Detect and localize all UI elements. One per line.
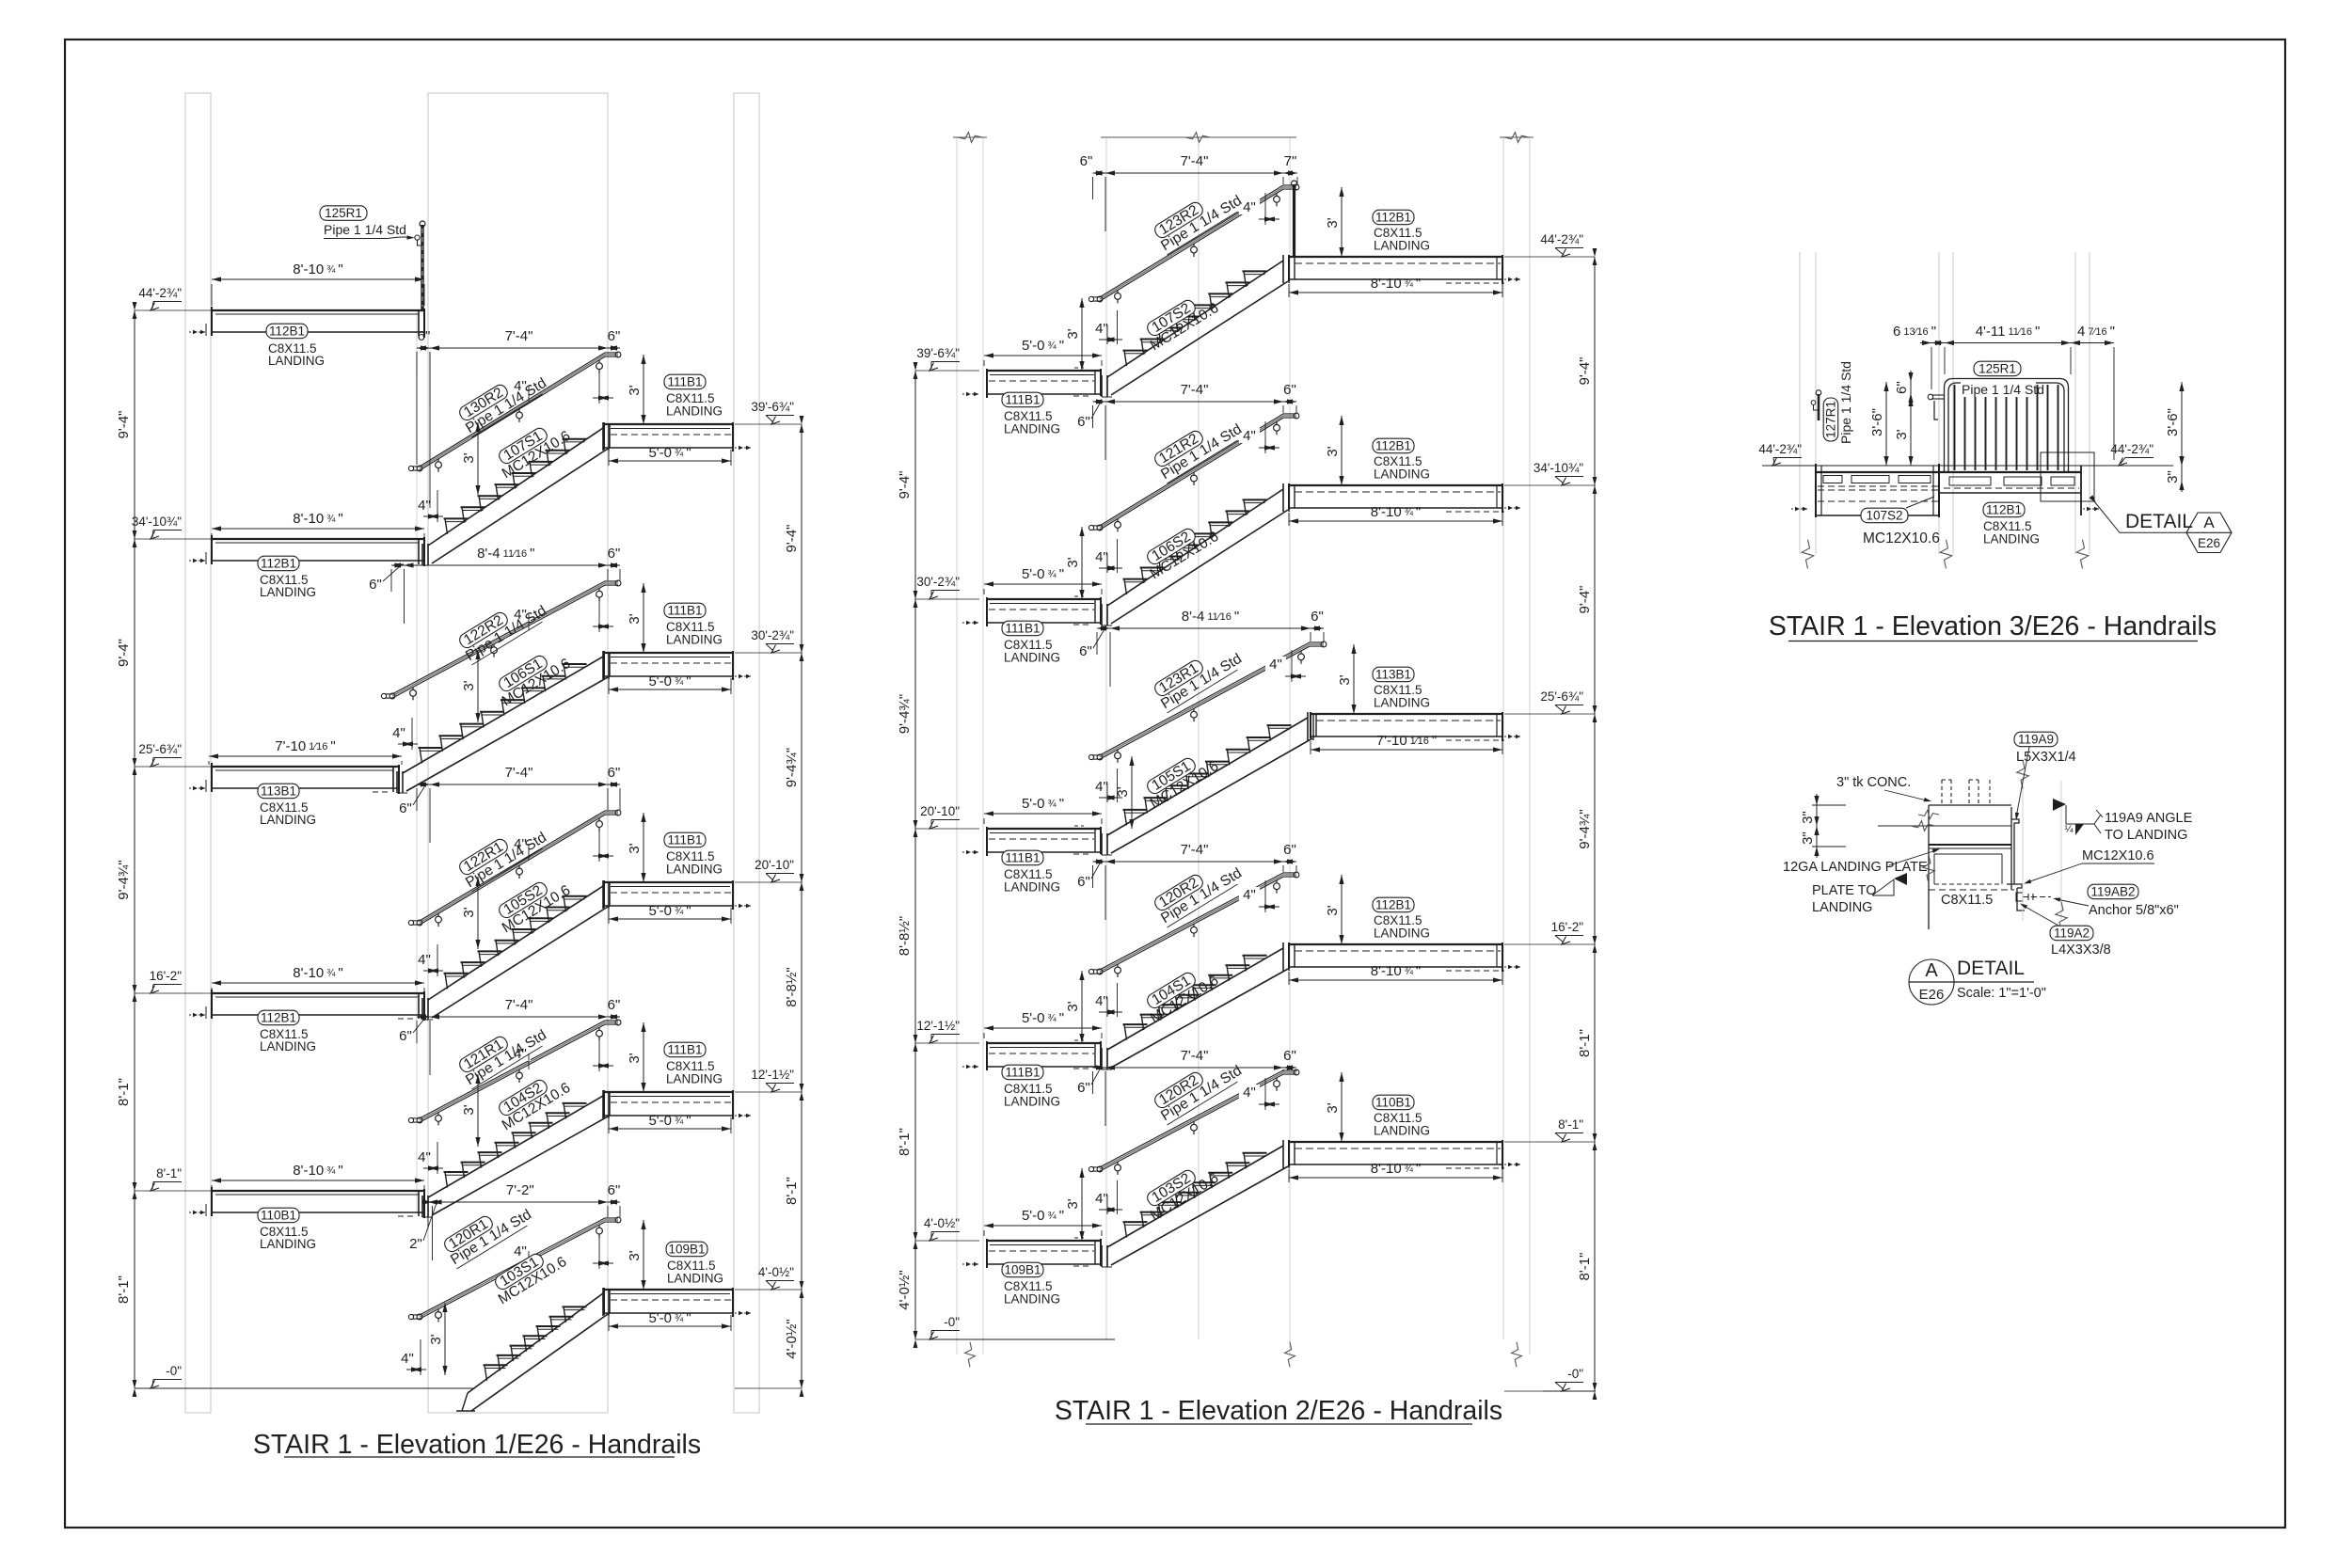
svg-text:8'-4 11⁄16 ": 8'-4 11⁄16 " [1182, 609, 1239, 625]
svg-text:4": 4" [418, 1149, 431, 1165]
svg-text:110B1: 110B1 [1375, 1096, 1411, 1110]
detail: studs above slab [1941, 780, 1943, 805]
detail: section cut arrows [2053, 799, 2066, 811]
EL2 right landing bottom dim [1289, 520, 1502, 522]
EL1 dim 4in upper post [510, 1046, 531, 1061]
EL1 label 112B1 44ft [266, 324, 308, 339]
EL1 extension line [416, 310, 418, 1213]
EL2 label 123R1 rotated [1151, 639, 1245, 713]
svg-text:6": 6" [399, 1028, 412, 1044]
EL1 dim 3ft rail height mid flight [477, 422, 479, 495]
svg-text:3": 3" [1800, 832, 1816, 845]
svg-text:8'-10 ¾ ": 8'-10 ¾ " [293, 261, 342, 277]
svg-text:8'-4 11⁄16 ": 8'-4 11⁄16 " [477, 546, 534, 562]
EL2 landing 110B1 at level 1214 [1289, 1141, 1502, 1143]
EL1 landing 109B1 at level 1371 [604, 1289, 733, 1291]
EL1 rail top dim [428, 1201, 620, 1203]
detail: L5X3 angle 119A9 [2007, 819, 2019, 884]
EL2 dim 3ft rail at upper landing [1341, 1072, 1343, 1142]
EL1 rail top dim [391, 564, 620, 566]
svg-text:9'-4": 9'-4" [116, 411, 132, 439]
svg-text:STAIR 1 - Elevation 3/E26 - Ha: STAIR 1 - Elevation 3/E26 - Handrails [1769, 611, 2217, 641]
EL2 handrail 123R1 Pipe 1 1/4 Std [1100, 642, 1324, 755]
svg-text:Pipe 1 1/4 Std: Pipe 1 1/4 Std [324, 222, 406, 237]
EL2 dim 3ft rail cap height [1081, 298, 1083, 371]
svg-text:Anchor 5/8"x6": Anchor 5/8"x6" [2089, 903, 2179, 918]
svg-text:44'-2¾": 44'-2¾" [2110, 442, 2153, 456]
EL2 handrail 123R2 Pipe 1 1/4 Std [1100, 185, 1296, 297]
EL2 label 111B1 [1002, 850, 1043, 865]
EL2 dim 3ft rail at upper landing [1341, 875, 1343, 944]
svg-text:Pipe 1 1/4 Std: Pipe 1 1/4 Std [1838, 361, 1853, 444]
EL1 landing top dim [212, 982, 424, 984]
svg-text:LANDING: LANDING [1983, 532, 2040, 546]
EL2 left landing dim 5-0-3/4 [984, 1027, 1102, 1029]
svg-text:LANDING: LANDING [1812, 900, 1872, 915]
svg-text:39'-6¾": 39'-6¾" [751, 400, 794, 414]
svg-text:111B1: 111B1 [667, 1043, 702, 1057]
svg-text:LANDING: LANDING [666, 1072, 723, 1086]
EL1 landing 111B1 at level 938 [604, 881, 733, 883]
svg-text:113B1: 113B1 [1375, 668, 1411, 682]
svg-text:109B1: 109B1 [1004, 1263, 1041, 1277]
svg-text:LANDING: LANDING [260, 1237, 316, 1251]
svg-text:3': 3' [627, 613, 643, 624]
detail: label 119A9 [2014, 732, 2058, 747]
svg-text:5'-0 ¾ ": 5'-0 ¾ " [648, 1310, 691, 1326]
detail: label 119AB2 [2088, 884, 2138, 899]
EL1 landing 111B1 at level 1161 [604, 1091, 733, 1093]
EL3 DETAIL A/E26 hexagon [2186, 513, 2232, 553]
svg-text:8'-8½": 8'-8½" [784, 967, 800, 1006]
EL2 label 112B1 [1373, 438, 1414, 453]
svg-text:5'-0 ¾ ": 5'-0 ¾ " [648, 903, 691, 919]
svg-text:34'-10¾": 34'-10¾" [1534, 461, 1583, 475]
EL2 dim 4in upper post [1265, 657, 1286, 672]
svg-text:119A9 ANGLE: 119A9 ANGLE [2105, 811, 2193, 826]
EL3 dim 6in [1910, 371, 1912, 404]
svg-text:8'-1": 8'-1" [897, 1128, 913, 1156]
EL2 dim 3ft rail cap height [1081, 971, 1083, 1043]
detail: weld symbol 1/4 [2066, 823, 2094, 825]
svg-text:119AB2: 119AB2 [2090, 885, 2135, 899]
EL2 grid extension lines [956, 137, 958, 1354]
svg-text:7'-2": 7'-2" [506, 1182, 534, 1198]
EL3 label 125R1 [1974, 361, 2021, 376]
svg-text:30'-2¾": 30'-2¾" [751, 628, 794, 642]
EL2 dim 4in upper post [1239, 1085, 1260, 1100]
svg-text:9'-4": 9'-4" [897, 471, 913, 499]
svg-text:7": 7" [1284, 153, 1297, 169]
EL2 landing 111B1 at level 394 [987, 370, 1101, 372]
detail: grid lines w/ breaks [2022, 781, 2024, 921]
svg-text:8'-10 ¾ ": 8'-10 ¾ " [1371, 1161, 1421, 1177]
svg-text:3': 3' [1325, 905, 1341, 915]
EL1 landing top dim [209, 755, 402, 757]
EL1 dim 8-10-3/4 top landing [212, 278, 424, 280]
svg-text:6": 6" [608, 997, 621, 1013]
detail: MC12 stringer flange [2014, 884, 2022, 888]
EL2 dim 4in upper post [1239, 887, 1260, 902]
svg-text:LANDING: LANDING [667, 1272, 723, 1286]
svg-text:5'-0 ¾ ": 5'-0 ¾ " [1022, 338, 1064, 354]
svg-text:6": 6" [399, 800, 412, 816]
EL1 label 109B1 [666, 1242, 707, 1257]
EL1 flight 107S1 stringer MC12X10.6 [428, 428, 603, 546]
svg-text:30'-2¾": 30'-2¾" [916, 575, 960, 589]
svg-text:7'-4": 7'-4" [1181, 842, 1209, 858]
svg-text:9'-4¾": 9'-4¾" [116, 860, 132, 899]
svg-text:6": 6" [1283, 1048, 1296, 1064]
EL1 dim 3ft rail height mid flight [477, 650, 479, 722]
svg-text:113B1: 113B1 [261, 784, 296, 799]
svg-text:LANDING: LANDING [1004, 880, 1060, 895]
svg-text:25'-6¾": 25'-6¾" [138, 742, 182, 756]
svg-text:8'-8½": 8'-8½" [897, 916, 913, 956]
svg-text:6": 6" [369, 577, 382, 593]
EL3 dim 3in right [2181, 454, 2183, 492]
EL1 dim 4in upper post [510, 378, 531, 393]
EL1 label 121R1 rotated [455, 1015, 549, 1089]
EL2 left landing dim 5-0-3/4 [984, 355, 1102, 356]
EL1 dim 4in upper post [510, 1243, 531, 1259]
svg-text:8'-10 ¾ ": 8'-10 ¾ " [1371, 504, 1421, 520]
EL1 right landing dim 5-0-3/4 [609, 689, 731, 690]
svg-text:L5X3X1/4: L5X3X1/4 [2016, 750, 2076, 765]
detail: anchor bolt 119AB2 [2016, 893, 2023, 901]
svg-text:20'-10": 20'-10" [920, 804, 960, 818]
svg-text:7'-4": 7'-4" [1181, 153, 1209, 169]
svg-text:6": 6" [418, 328, 431, 344]
svg-text:5'-0 ¾ ": 5'-0 ¾ " [648, 445, 691, 461]
svg-text:111B1: 111B1 [1005, 1066, 1040, 1080]
EL2 landing 111B1 at level 881 [987, 828, 1101, 830]
detail: C8X11.5 channel [1929, 889, 2014, 891]
EL2 landing 112B1 at level 1004 [1289, 943, 1502, 945]
svg-text:LANDING: LANDING [260, 1039, 316, 1053]
EL1 dim 3ft rail height at landing [643, 355, 644, 424]
EL3 rail arm left of guardrail [1931, 394, 1945, 396]
svg-text:112B1: 112B1 [1375, 439, 1411, 453]
svg-text:LANDING: LANDING [1374, 467, 1430, 482]
svg-text:3': 3' [1065, 328, 1081, 339]
EL1 rail top dim [417, 1016, 620, 1018]
EL2 landing 111B1 at level 637 [987, 598, 1101, 600]
EL1 label 106S1 rotated [492, 643, 574, 709]
svg-text:9'-4¾": 9'-4¾" [1577, 809, 1593, 848]
svg-text:8'-10 ¾ ": 8'-10 ¾ " [293, 965, 342, 981]
EL2 right landing bottom dim [1289, 979, 1502, 981]
svg-text:DETAIL: DETAIL [2125, 511, 2193, 532]
svg-text:8'-1": 8'-1" [1577, 1029, 1593, 1057]
svg-text:3" tk CONC.: 3" tk CONC. [1836, 775, 1911, 790]
svg-text:PLATE TO: PLATE TO [1812, 883, 1877, 898]
EL2 flight 107S2 stringer MC12X10.6 [1107, 261, 1283, 377]
svg-text:12'-1½": 12'-1½" [751, 1068, 794, 1082]
svg-text:4": 4" [1095, 993, 1108, 1009]
svg-text:LANDING: LANDING [666, 863, 723, 877]
svg-text:112B1: 112B1 [261, 557, 296, 571]
EL3 dim 3ft-6 right [2181, 382, 2183, 466]
svg-text:3": 3" [2165, 470, 2181, 483]
svg-text:111B1: 111B1 [667, 604, 702, 618]
svg-text:MC12X10.6: MC12X10.6 [1863, 531, 1940, 546]
svg-text:7'-4": 7'-4" [505, 997, 533, 1013]
svg-text:6 13⁄16 ": 6 13⁄16 " [1893, 324, 1936, 340]
svg-text:4": 4" [1095, 321, 1108, 337]
EL2 flight 105S1 stringer MC12X10.6 [1107, 718, 1308, 835]
svg-text:3'-6": 3'-6" [2165, 408, 2181, 436]
svg-text:4": 4" [418, 498, 431, 514]
svg-text:2": 2" [409, 1236, 422, 1252]
EL1 right landing dim 5-0-3/4 [609, 1128, 731, 1130]
EL1 label 122R2 rotated [455, 591, 549, 665]
svg-text:7'-4": 7'-4" [1181, 1048, 1209, 1064]
EL2 label 107S2 rotated [1140, 288, 1222, 354]
EL2 rail top dim [1093, 401, 1297, 403]
svg-text:9'-4": 9'-4" [1577, 357, 1593, 386]
svg-text:4": 4" [514, 1243, 527, 1259]
EL1 landing 112B1 at 44ft [212, 309, 424, 311]
svg-text:E26: E26 [1919, 987, 1945, 1003]
svg-text:4": 4" [1243, 1085, 1256, 1101]
svg-text:LANDING: LANDING [268, 354, 325, 368]
svg-text:5'-0 ¾ ": 5'-0 ¾ " [1022, 1208, 1064, 1224]
EL2 landing 111B1 at level 1109 [987, 1042, 1101, 1044]
EL1 dim 3ft rail height mid flight [444, 1303, 446, 1375]
EL2 right landing bottom dim [1311, 749, 1502, 751]
EL1 rail top dim [417, 784, 620, 785]
EL2 label 123R2 rotated [1151, 181, 1245, 255]
svg-text:6": 6" [608, 328, 621, 344]
svg-text:LANDING: LANDING [1004, 1292, 1060, 1307]
EL1 left dimension chain [134, 310, 135, 1388]
EL1 grid column bands [185, 93, 211, 1413]
svg-text:8'-1": 8'-1" [156, 1166, 182, 1180]
svg-text:3': 3' [627, 1250, 643, 1260]
EL2 right landing bottom dim [1289, 292, 1502, 293]
EL2 label 121R2 rotated [1151, 409, 1245, 483]
svg-text:3': 3' [1065, 1198, 1081, 1209]
svg-text:6": 6" [1077, 1080, 1090, 1096]
svg-text:3': 3' [1065, 557, 1081, 567]
svg-text:Pipe 1 1/4 Std: Pipe 1 1/4 Std [1962, 382, 2044, 397]
detail: concrete slab [1929, 804, 2011, 806]
svg-text:3': 3' [461, 1104, 477, 1115]
EL1 handrail 122R2 Pipe 1 1/4 Std [392, 581, 618, 694]
svg-text:111B1: 111B1 [667, 375, 702, 389]
EL1 landing top dim [212, 1180, 424, 1181]
EL2 label 112B1 [1373, 897, 1414, 912]
EL2 bottom break symbols [965, 1342, 976, 1367]
EL1 label 111B1 [664, 374, 706, 389]
EL2 left landing dim 5-0-3/4 [984, 583, 1102, 585]
EL2 left landing dim 5-0-3/4 [984, 813, 1102, 815]
svg-text:LANDING: LANDING [1374, 696, 1430, 710]
EL1 label 122R1 rotated [455, 817, 549, 892]
svg-text:LANDING: LANDING [1004, 1095, 1060, 1109]
EL1 label 104S2 rotated [492, 1068, 574, 1133]
svg-text:MC12X10.6: MC12X10.6 [2082, 848, 2154, 863]
svg-text:4": 4" [1095, 779, 1108, 795]
svg-text:3': 3' [627, 843, 643, 853]
EL2 label 113B1 [1373, 667, 1414, 682]
svg-text:LANDING: LANDING [666, 404, 723, 419]
svg-text:LANDING: LANDING [260, 585, 316, 599]
svg-text:-0": -0" [944, 1315, 960, 1329]
EL1 dim 3ft rail height at landing [643, 1220, 644, 1290]
svg-text:107S2: 107S2 [1866, 509, 1902, 523]
svg-text:STAIR 1 - Elevation 2/E26 - Ha: STAIR 1 - Elevation 2/E26 - Handrails [1055, 1396, 1502, 1426]
svg-text:111B1: 111B1 [1005, 393, 1040, 407]
EL2 right landing bottom dim [1289, 1177, 1502, 1179]
EL3 dim 3ft-6 left [1885, 382, 1887, 466]
svg-text:4": 4" [1095, 549, 1108, 565]
EL2 label 111B1 [1002, 392, 1043, 407]
svg-text:16'-2": 16'-2" [150, 969, 183, 983]
EL2 handrail 120R2 Pipe 1 1/4 Std [1100, 873, 1296, 970]
svg-text:112B1: 112B1 [261, 1011, 296, 1025]
EL2 label 105S1 rotated [1140, 746, 1222, 812]
svg-text:¼: ¼ [2064, 824, 2074, 835]
svg-text:C8X11.5: C8X11.5 [1941, 893, 1993, 908]
svg-text:39'-6¾": 39'-6¾" [916, 346, 960, 360]
EL1 dim 3ft rail height mid flight [477, 1074, 479, 1147]
EL2 dim 3ft rail cap height [1131, 756, 1133, 829]
svg-text:LANDING: LANDING [1004, 422, 1060, 436]
EL1 flight 106S1 stringer MC12X10.6 [403, 657, 603, 773]
EL1 handrail 122R1 Pipe 1 1/4 Std [420, 811, 618, 921]
EL1 rail 125R1 vertical guard [421, 225, 423, 310]
EL2 ground stub right [1543, 1390, 1596, 1392]
svg-text:-0": -0" [1567, 1367, 1583, 1381]
svg-text:7'-4": 7'-4" [505, 765, 533, 781]
svg-text:4'-0½": 4'-0½" [784, 1319, 800, 1358]
EL1 dim 3ft rail height mid flight [477, 877, 479, 949]
svg-text:8'-10 ¾ ": 8'-10 ¾ " [293, 1163, 342, 1179]
svg-text:LANDING: LANDING [1374, 927, 1430, 941]
svg-text:16'-2": 16'-2" [1551, 920, 1584, 934]
svg-text:25'-6¾": 25'-6¾" [1540, 689, 1583, 704]
svg-text:4": 4" [401, 1351, 414, 1367]
svg-text:8'-1": 8'-1" [784, 1177, 800, 1205]
EL3 dim 3ft left [1910, 397, 1912, 466]
svg-text:111B1: 111B1 [667, 833, 702, 847]
EL3 landing 112B1 side view [1939, 471, 2081, 473]
EL1 landing 111B1 at level 694 [604, 652, 733, 654]
EL1 right dimension chain [801, 424, 803, 1388]
svg-text:44'-2¾": 44'-2¾" [1758, 442, 1802, 456]
svg-text:6": 6" [1079, 643, 1092, 659]
svg-text:44'-2¾": 44'-2¾" [1540, 232, 1583, 246]
svg-text:12GA LANDING PLATE: 12GA LANDING PLATE [1783, 860, 1928, 875]
svg-text:9'-4": 9'-4" [116, 639, 132, 667]
EL2 rail top dim [1093, 1067, 1297, 1069]
EL2 ground level line [930, 1338, 1115, 1340]
EL3 label 112B1 [1983, 502, 2025, 517]
svg-text:4 7⁄16 ": 4 7⁄16 " [2077, 324, 2115, 340]
svg-text:5'-0 ¾ ": 5'-0 ¾ " [1022, 1010, 1064, 1026]
EL3 level line 44ft [1762, 465, 2173, 467]
EL1 landing 110B1 at level 1266 [212, 1190, 424, 1192]
svg-text:110B1: 110B1 [261, 1209, 296, 1223]
svg-text:6": 6" [608, 1182, 621, 1198]
EL1 handrail 121R1 Pipe 1 1/4 Std [420, 1021, 618, 1118]
svg-text:3': 3' [1325, 217, 1341, 228]
svg-text:4'-0½": 4'-0½" [897, 1270, 913, 1309]
svg-text:8'-1": 8'-1" [1577, 1253, 1593, 1281]
svg-text:3': 3' [461, 452, 477, 463]
EL2 rail top dim [1097, 627, 1324, 629]
svg-text:Scale: 1"=1'-0": Scale: 1"=1'-0" [1957, 986, 2046, 1001]
svg-text:LANDING: LANDING [1374, 1124, 1430, 1138]
svg-text:125R1: 125R1 [325, 206, 362, 220]
svg-text:4": 4" [1269, 657, 1282, 673]
EL1 flight 103S1 stringer MC12X10.6 [468, 1293, 603, 1393]
svg-text:3': 3' [1065, 1001, 1081, 1011]
svg-text:7'-10 1⁄16 ": 7'-10 1⁄16 " [275, 738, 335, 754]
svg-text:9'-4": 9'-4" [784, 525, 800, 553]
EL2 landing 112B1 at level 273 [1289, 256, 1502, 258]
EL1 label 111B1 [664, 1042, 706, 1057]
EL2 handrail 121R2 Pipe 1 1/4 Std [1100, 414, 1296, 526]
EL1 dim 4in upper post [510, 836, 531, 851]
EL2 label 104S1 rotated [1140, 960, 1222, 1026]
svg-text:5'-0 ¾ ": 5'-0 ¾ " [648, 673, 691, 689]
svg-text:3": 3" [1800, 811, 1816, 824]
svg-text:3': 3' [1325, 446, 1341, 456]
EL2 handrail 120R2 Pipe 1 1/4 Std [1100, 1070, 1296, 1167]
svg-text:3': 3' [461, 680, 477, 690]
svg-text:127R1: 127R1 [1824, 401, 1838, 438]
svg-text:34'-10¾": 34'-10¾" [132, 515, 182, 529]
svg-text:6": 6" [608, 546, 621, 562]
svg-text:6": 6" [608, 765, 621, 781]
svg-text:4": 4" [1095, 1191, 1108, 1207]
EL3 label 127R1 rotated [1823, 398, 1838, 441]
EL2 rail 125R1 short vertical at top [1293, 184, 1295, 257]
svg-text:6": 6" [1894, 381, 1910, 394]
svg-text:44'-2¾": 44'-2¾" [138, 286, 182, 300]
EL1 label 103S1 rotated [488, 1242, 570, 1307]
svg-text:119A9: 119A9 [2018, 733, 2054, 747]
svg-text:3': 3' [461, 907, 477, 917]
EL1 landing 112B1 at level 573 [212, 538, 424, 540]
svg-text:4": 4" [1243, 887, 1256, 903]
svg-text:4'-0½": 4'-0½" [758, 1265, 794, 1279]
svg-text:111B1: 111B1 [1005, 851, 1040, 865]
EL1 right landing dim 5-0-3/4 [609, 918, 731, 920]
svg-text:3': 3' [1325, 1102, 1341, 1113]
EL2 flight 104S1 stringer MC12X10.6 [1107, 948, 1283, 1050]
svg-text:6": 6" [1311, 609, 1324, 625]
EL2 dim 3ft rail at upper landing [1341, 187, 1343, 257]
EL1 rail top dim [417, 347, 620, 349]
svg-text:LANDING: LANDING [1004, 651, 1060, 665]
EL1 label 120R1 rotated [440, 1195, 534, 1269]
svg-text:STAIR 1 - Elevation 1/E26 - Ha: STAIR 1 - Elevation 1/E26 - Handrails [253, 1430, 701, 1460]
EL2 rail top dim [1093, 861, 1297, 863]
EL1 dim 4in upper post [510, 607, 531, 622]
EL1 right landing dim 5-0-3/4 [609, 1325, 731, 1327]
svg-text:12'-1½": 12'-1½" [916, 1019, 960, 1033]
svg-text:DETAIL: DETAIL [1957, 958, 2025, 979]
EL3 post 127R1 [1818, 394, 1820, 420]
EL3 guardrail 125R1 [1945, 379, 2069, 472]
svg-text:4": 4" [392, 725, 405, 741]
detail: L4X3X3/8 angle 119A2 [2017, 888, 2025, 911]
svg-text:112B1: 112B1 [1986, 503, 2022, 517]
